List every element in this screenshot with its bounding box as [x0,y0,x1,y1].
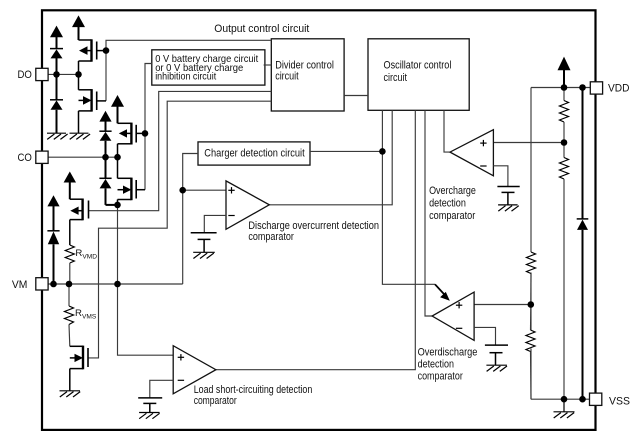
svg-text:comparator: comparator [429,210,476,222]
svg-text:comparator: comparator [248,231,294,243]
Oscillator control circuit box U4 [368,39,469,111]
pin VDD [590,82,602,94]
op-amp U6 discharge overcurrent detection comparator [226,181,269,229]
VDD symbol arrow (VM diode column) [47,195,59,231]
transistor Q4 NMOS CO driver [118,157,146,200]
node dot overcharge ref [561,139,568,146]
wire lower chain mid segments [530,273,532,331]
diode D5 [47,231,59,284]
svg-text:circuit: circuit [275,70,299,82]
node dot Q4 source [114,202,121,209]
wire Q1 drain to DO node [78,61,80,74]
capacitor C2 [497,187,519,205]
node dot VDD arrow [561,84,568,91]
wire overcharge + input [493,142,564,144]
wire VSS rail [531,398,590,400]
U8 minus pin [456,327,462,329]
U6 minus pin [228,215,234,217]
U8 plus pin [456,302,462,308]
node dot CO-diode [102,154,109,161]
wire 0Vbox-to-divider [264,64,272,66]
U6 plus pin [228,187,234,193]
resistor R1 upper chain [560,88,569,143]
wire VM to load-short + input [118,205,174,355]
ground G7 [139,413,160,419]
VDD symbol arrow (CO diode column) [99,111,111,131]
wire Q4 source to VM column [117,200,119,205]
svg-text:inhibition circuit: inhibition circuit [155,71,216,82]
diode D4 [99,157,111,205]
wire overdischarge + input [474,304,531,306]
wire divider to NMOS4 gate (net B) [88,101,271,358]
transistor Q2 NMOS DO driver [79,74,107,111]
resistor RVMD [65,245,74,284]
transistor Q5 PMOS 0V charge switch [70,199,89,221]
U7 minus pin [480,165,486,167]
svg-text:detection: detection [418,358,454,370]
resistor R3 lower chain [527,252,536,305]
node dot VM sense column [114,281,121,288]
svg-text:DO: DO [18,69,32,81]
resistor RVMS [65,284,74,346]
svg-text:comparator: comparator [194,395,237,407]
diode D3 [99,131,111,157]
pin VM [36,278,48,290]
wire VDD rail [531,87,590,89]
wire discharge + input [183,189,226,191]
svg-text:Overdischarge: Overdischarge [418,346,478,358]
svg-text:VSS: VSS [609,395,630,407]
Divider control circuit box U3 [271,39,344,111]
svg-text:Oscillator control: Oscillator control [384,59,452,71]
svg-text:VM: VM [12,279,28,291]
diode D6 parasitic [577,219,589,399]
wire U6 minus to capacitor [204,215,226,232]
VDD symbol arrow (DO diode column) [50,26,63,49]
node dot DO-diode [53,71,60,78]
node dot VM diode [50,281,57,288]
svg-text:CO: CO [18,152,32,164]
wire U8 minus to capacitor [474,327,495,345]
wire charger detection left to VM column [183,154,198,285]
resistor R2 upper chain [560,143,569,400]
wire VM pin net [48,283,183,285]
transistor Q1 PMOS DO driver [79,39,107,61]
transistor Q3 PMOS CO driver [118,123,146,145]
node dot DO-driver [75,71,82,78]
wire 0Vbox left to CO-driver gates [145,64,152,190]
wire Q3 drain to CO node [117,144,119,157]
wire U9 minus to capacitor [150,380,173,398]
VDD symbol arrow (upper divider chain) [558,57,571,88]
VDD symbol arrow (CO driver PMOS source) [111,95,124,123]
pin VSS [590,393,602,405]
resistor R4 lower chain [526,305,535,400]
wire gate tie Q1-Q2 [105,51,107,101]
ground G4 [193,252,215,258]
node dot overdischarge ref [528,301,535,308]
wire oscillator to overcharge comparator output [444,110,450,152]
node dot CO-driver [114,154,121,161]
node dot Q1Q2 gates [103,47,110,54]
diode D1 [50,49,63,75]
svg-text:Charger detection circuit: Charger detection circuit [204,148,304,160]
wire lower chain bottom [530,349,532,400]
ground G2 [70,133,91,139]
svg-text:comparator: comparator [418,370,464,382]
node dot VSS ground [561,396,568,403]
node dot Q3Q4 gates [142,130,149,137]
Charger detection circuit box U5 [198,142,310,165]
capacitor C4 [138,398,162,413]
op-amp U8 overdischarge detection comparator (points left) [432,292,474,340]
pin DO [36,68,48,80]
ground G6 [486,365,507,371]
ground G1 [47,133,68,139]
node dot charger-oscillator tap [379,148,386,155]
ground G8 VSS [554,399,575,418]
capacitor C3 [485,345,508,365]
VDD symbol arrow (0V charge PMOS source) [64,172,76,200]
pin CO [36,151,48,163]
wire divider-to-oscillator [344,95,368,97]
wire load-short comparator output to oscillator [216,110,415,369]
wire Q5 drain to RVMD [69,220,71,245]
VDD symbol arrow (DO driver PMOS source) [72,15,85,40]
U9 minus pin [178,379,184,381]
wire D4 to Q3 source node [106,204,118,206]
arrow head control signal [435,284,445,295]
wire charger detection to oscillator tap [310,150,382,152]
op-amp U7 overcharge detection comparator (points left) [450,130,493,176]
ground G5 [498,205,519,211]
wire discharge comparator output to oscillator [269,110,392,205]
wire DO-driver gates to divider (net G1) [106,40,271,50]
op-amp U9 load short-circuiting detection comparator [173,346,216,394]
diode D2 [50,74,63,133]
node dot VDD diode line [579,84,586,91]
wire overdischarge comparator output to oscillator [425,110,432,316]
wire DO pin net [48,73,79,75]
wire CO pin net [48,156,118,158]
wire Q6 source to ground [69,369,71,391]
wire divider to PMOS3 gate (net A) [89,91,272,210]
svg-text:circuit: circuit [384,72,408,84]
U9 plus pin [178,354,184,360]
svg-text:Load short-circuiting detectio: Load short-circuiting detection [194,384,313,396]
svg-text:detection: detection [429,198,466,210]
0V battery charge circuit box U2 [152,50,265,85]
svg-text:Overcharge: Overcharge [429,185,476,197]
svg-text:Output control circuit: Output control circuit [214,23,309,35]
svg-text:Discharge overcurrent detectio: Discharge overcurrent detection [248,220,379,232]
capacitor C1 [191,233,217,253]
U7 plus pin [480,140,486,146]
node dot VSS diode line [579,396,586,403]
wire U7 minus to capacitor [493,166,508,187]
wire Q2 source to ground [78,111,80,133]
node dot discharge plus [179,187,186,194]
ground G3 [60,391,81,397]
node dot VM resistors [66,281,73,288]
transistor Q6 NMOS VM sense switch [70,346,88,370]
wire VDD to lower divider chain [530,88,532,253]
wire VDD to parasitic diode line [582,88,584,219]
svg-text:VDD: VDD [608,83,630,95]
wire oscillator to overdischarge comparator control (diagonal arrow) [382,110,435,284]
